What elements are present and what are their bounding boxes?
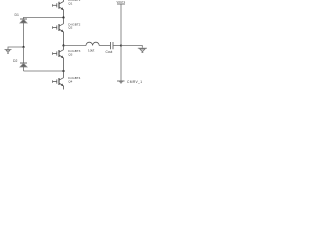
transistor Q3: [53, 46, 64, 72]
ground left: [5, 50, 12, 54]
diode D2: [20, 63, 27, 71]
ground bottom port: [117, 81, 125, 83]
wire left rail lower: [23, 47, 25, 63]
wire inductor to cap: [99, 45, 110, 47]
node right junction: [120, 44, 122, 46]
ground right: [138, 48, 147, 52]
terminal T-bar top: [117, 4, 125, 46]
svg-text:VOUT1: VOUT1: [117, 0, 126, 4]
wire out to inductor: [64, 45, 87, 47]
node B junction: [62, 70, 64, 72]
svg-text:CMRV_1: CMRV_1: [127, 80, 142, 84]
svg-text:Q3: Q3: [68, 53, 72, 57]
svg-text:Lout: Lout: [88, 49, 94, 53]
label Q1: [68, 0, 80, 5]
diode D1: [20, 18, 27, 27]
wire node down to ground port: [120, 46, 122, 81]
transistor Q1: [53, 0, 64, 18]
label Q4: [68, 76, 80, 83]
svg-text:Q2: Q2: [68, 26, 72, 30]
node M junction: [22, 46, 24, 48]
svg-text:D1: D1: [15, 13, 19, 17]
wire midpoint to ground: [8, 47, 24, 49]
inductor Lout: [86, 42, 99, 45]
transistor Q2: [53, 18, 64, 46]
capacitor Cout: [111, 42, 114, 49]
svg-text:D2: D2: [13, 59, 17, 63]
wire cap to node: [113, 45, 121, 47]
transistor Q4: [53, 71, 64, 90]
wire node to right ground: [121, 46, 142, 48]
label Q3: [68, 49, 80, 56]
wire node B horizontal: [24, 70, 64, 72]
node A junction: [62, 16, 64, 18]
wire left rail upper: [23, 26, 25, 47]
wire node A horizontal: [23, 17, 63, 19]
node OUT junction: [62, 44, 64, 46]
svg-text:Q1: Q1: [68, 1, 72, 5]
label Q2: [68, 22, 80, 29]
svg-text:Cout: Cout: [106, 50, 113, 54]
svg-text:Q4: Q4: [68, 80, 72, 84]
